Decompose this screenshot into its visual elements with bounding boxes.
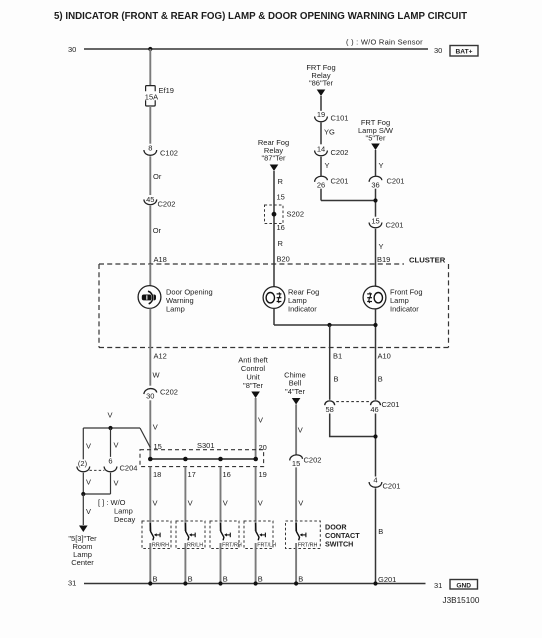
- svg-text:V: V: [114, 441, 119, 450]
- svg-text:Or: Or: [153, 172, 162, 181]
- svg-text:V: V: [298, 499, 303, 508]
- svg-text:V: V: [153, 423, 158, 432]
- svg-text:Y: Y: [325, 161, 330, 170]
- svg-text:C102: C102: [160, 149, 178, 158]
- svg-text:C201: C201: [386, 221, 404, 230]
- svg-text:W: W: [153, 371, 161, 380]
- svg-text:A10: A10: [378, 352, 391, 361]
- svg-text:V: V: [188, 499, 193, 508]
- svg-text:B: B: [223, 575, 228, 584]
- svg-text:A12: A12: [154, 352, 167, 361]
- svg-text:SWITCH: SWITCH: [325, 540, 353, 549]
- svg-text:17: 17: [188, 470, 196, 479]
- svg-text:C101: C101: [331, 114, 349, 123]
- svg-text:31: 31: [434, 581, 442, 590]
- svg-text:20: 20: [259, 443, 267, 452]
- svg-text:G201: G201: [378, 575, 396, 584]
- svg-text:V: V: [86, 507, 91, 516]
- svg-text:B: B: [258, 575, 263, 584]
- svg-text:RR/RH: RR/RH: [152, 543, 169, 549]
- svg-text:15: 15: [292, 459, 300, 468]
- svg-text:C202: C202: [160, 388, 178, 397]
- svg-text:14: 14: [317, 144, 325, 153]
- svg-text:B: B: [188, 575, 193, 584]
- svg-text:Center: Center: [71, 558, 94, 567]
- svg-text:B20: B20: [277, 255, 290, 264]
- svg-text:FRT/LH: FRT/LH: [257, 543, 276, 549]
- svg-text:"86"Ter: "86"Ter: [309, 79, 334, 88]
- svg-text:V: V: [86, 442, 91, 451]
- svg-text:R: R: [278, 177, 284, 186]
- svg-text:C202: C202: [158, 200, 176, 209]
- svg-text:19: 19: [317, 110, 325, 119]
- svg-text:15: 15: [371, 216, 379, 225]
- svg-text:Decay: Decay: [114, 515, 136, 524]
- svg-text:V: V: [86, 478, 91, 487]
- svg-text:18: 18: [153, 470, 161, 479]
- svg-text:FRT/RH: FRT/RH: [222, 543, 242, 549]
- svg-text:V: V: [298, 426, 303, 435]
- svg-text:15: 15: [154, 442, 162, 451]
- svg-text:V: V: [108, 411, 113, 420]
- svg-text:B: B: [378, 527, 383, 536]
- svg-text:"4"Ter: "4"Ter: [285, 387, 305, 396]
- svg-text:GND: GND: [456, 582, 471, 589]
- svg-text:B: B: [334, 375, 339, 384]
- svg-text:46: 46: [370, 405, 378, 414]
- svg-text:C201: C201: [383, 482, 401, 491]
- svg-text:19: 19: [259, 470, 267, 479]
- svg-text:C204: C204: [120, 464, 138, 473]
- svg-text:B: B: [378, 375, 383, 384]
- svg-text:V: V: [258, 416, 263, 425]
- svg-text:Indicator: Indicator: [288, 305, 317, 314]
- svg-text:Ef19: Ef19: [159, 86, 174, 95]
- svg-text:5) INDICATOR (FRONT & REAR FOG: 5) INDICATOR (FRONT & REAR FOG) LAMP & D…: [54, 11, 467, 22]
- svg-text:Y: Y: [379, 161, 384, 170]
- svg-text:30: 30: [68, 45, 76, 54]
- svg-text:V: V: [114, 479, 119, 488]
- svg-text:4: 4: [373, 475, 377, 484]
- svg-text:"87"Ter: "87"Ter: [261, 154, 286, 163]
- svg-text:31: 31: [68, 579, 76, 588]
- svg-text:V: V: [258, 499, 263, 508]
- svg-text:V: V: [153, 499, 158, 508]
- svg-text:15A: 15A: [145, 93, 158, 102]
- svg-text:C202: C202: [331, 148, 349, 157]
- svg-text:A18: A18: [154, 255, 167, 264]
- svg-text:BAT+: BAT+: [456, 49, 473, 56]
- svg-text:16: 16: [223, 470, 231, 479]
- svg-text:B: B: [298, 575, 303, 584]
- svg-text:( ) : W/O Rain Sensor: ( ) : W/O Rain Sensor: [346, 38, 423, 47]
- svg-text:26: 26: [317, 181, 325, 190]
- svg-text:YG: YG: [324, 128, 335, 137]
- svg-text:B1: B1: [333, 352, 342, 361]
- svg-text:Lamp: Lamp: [166, 305, 185, 314]
- svg-text:C201: C201: [331, 177, 349, 186]
- svg-text:Y: Y: [379, 242, 384, 251]
- svg-text:58: 58: [326, 405, 334, 414]
- svg-text:"5"Ter: "5"Ter: [366, 134, 386, 143]
- svg-text:Indicator: Indicator: [390, 305, 419, 314]
- svg-text:30: 30: [146, 392, 154, 401]
- svg-text:RR/LH: RR/LH: [187, 543, 203, 549]
- svg-text:Or: Or: [153, 226, 162, 235]
- svg-text:S202: S202: [287, 210, 305, 219]
- svg-text:C201: C201: [382, 400, 400, 409]
- svg-text:15: 15: [277, 193, 285, 202]
- svg-text:V: V: [223, 499, 228, 508]
- svg-text:B19: B19: [377, 255, 390, 264]
- svg-text:S301: S301: [197, 441, 215, 450]
- svg-text:CLUSTER: CLUSTER: [409, 256, 446, 265]
- svg-text:(2): (2): [78, 459, 88, 468]
- svg-text:"8"Ter: "8"Ter: [243, 381, 263, 390]
- svg-text:J3B15100: J3B15100: [443, 596, 480, 605]
- svg-text:B: B: [153, 575, 158, 584]
- svg-text:6: 6: [108, 456, 112, 465]
- svg-text:8: 8: [148, 143, 152, 152]
- svg-text:36: 36: [371, 181, 379, 190]
- svg-text:C201: C201: [387, 177, 405, 186]
- svg-text:45: 45: [146, 195, 154, 204]
- svg-text:16: 16: [277, 223, 285, 232]
- svg-text:30: 30: [434, 46, 442, 55]
- svg-text:R: R: [278, 239, 284, 248]
- svg-text:C202: C202: [304, 456, 322, 465]
- svg-text:FRT/RH: FRT/RH: [298, 543, 318, 549]
